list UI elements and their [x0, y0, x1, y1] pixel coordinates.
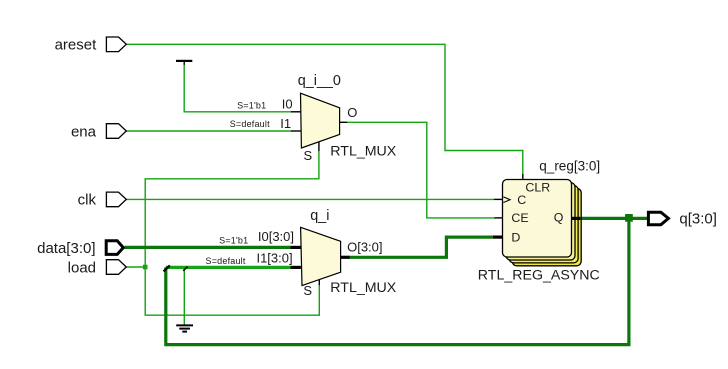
- svg-text:RTL_MUX: RTL_MUX: [330, 280, 397, 296]
- svg-text:CLR: CLR: [525, 181, 550, 195]
- svg-text:S: S: [303, 283, 312, 298]
- svg-text:D: D: [511, 230, 520, 244]
- svg-text:C: C: [517, 193, 526, 207]
- svg-text:CE: CE: [511, 211, 528, 225]
- svg-text:areset: areset: [55, 37, 98, 54]
- svg-text:S=default: S=default: [206, 256, 246, 266]
- svg-text:I1: I1: [280, 116, 291, 131]
- svg-text:ena: ena: [71, 123, 97, 140]
- svg-text:RTL_REG_ASYNC: RTL_REG_ASYNC: [478, 267, 600, 283]
- svg-text:S=default: S=default: [230, 119, 270, 129]
- svg-text:q_i__0: q_i__0: [298, 73, 341, 89]
- svg-text:Q: Q: [554, 211, 564, 225]
- svg-text:O: O: [347, 105, 357, 120]
- svg-text:I0[3:0]: I0[3:0]: [258, 229, 294, 244]
- svg-text:q_reg[3:0]: q_reg[3:0]: [539, 158, 600, 173]
- svg-text:O[3:0]: O[3:0]: [347, 239, 382, 254]
- svg-text:q_i: q_i: [310, 208, 329, 224]
- svg-text:load: load: [68, 259, 96, 276]
- svg-text:S=1'b1: S=1'b1: [237, 100, 266, 110]
- svg-text:RTL_MUX: RTL_MUX: [330, 144, 397, 160]
- svg-text:S: S: [304, 148, 313, 163]
- svg-text:S=1'b1: S=1'b1: [219, 235, 248, 245]
- svg-text:I0: I0: [282, 97, 293, 112]
- svg-text:I1[3:0]: I1[3:0]: [256, 251, 292, 266]
- svg-text:q[3:0]: q[3:0]: [679, 211, 717, 228]
- svg-text:data[3:0]: data[3:0]: [37, 240, 95, 257]
- svg-text:clk: clk: [78, 192, 97, 209]
